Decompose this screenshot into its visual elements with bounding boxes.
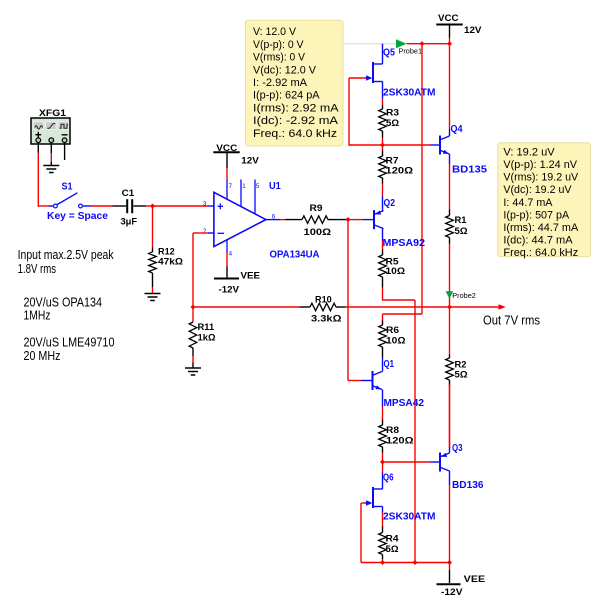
svg-text:V(dc): 12.0 V: V(dc): 12.0 V — [253, 64, 317, 76]
svg-text:MPSA92: MPSA92 — [383, 237, 426, 249]
svg-text:Probe2: Probe2 — [452, 291, 476, 300]
svg-text:R8: R8 — [386, 425, 400, 436]
svg-text:XFG1: XFG1 — [39, 108, 67, 119]
svg-text:I(p-p): 624 pA: I(p-p): 624 pA — [253, 90, 320, 102]
svg-text:120Ω: 120Ω — [386, 165, 414, 176]
svg-text:V(p-p): 1.24 nV: V(p-p): 1.24 nV — [503, 159, 577, 171]
svg-text:20 MHz: 20 MHz — [24, 349, 61, 363]
svg-text:Input max.2.5V peak: Input max.2.5V peak — [18, 248, 115, 262]
svg-text:R11: R11 — [198, 322, 215, 333]
svg-text:1kΩ: 1kΩ — [198, 333, 216, 344]
svg-text:R4: R4 — [386, 533, 400, 544]
svg-text:U1: U1 — [269, 180, 281, 192]
svg-text:12V: 12V — [241, 156, 259, 167]
svg-text:Q6: Q6 — [383, 472, 394, 484]
svg-text:Q1: Q1 — [384, 358, 395, 370]
svg-text:I(dc): -2.92 mA: I(dc): -2.92 mA — [253, 115, 339, 127]
svg-text:V: 19.2 uV: V: 19.2 uV — [503, 147, 555, 159]
svg-text:20V/uS LME49710: 20V/uS LME49710 — [24, 335, 115, 349]
svg-text:2SK30ATM: 2SK30ATM — [383, 87, 436, 99]
svg-text:Probe1: Probe1 — [399, 47, 423, 56]
svg-text:BD135: BD135 — [452, 164, 487, 176]
svg-text:I: 44.7 mA: I: 44.7 mA — [503, 197, 553, 209]
svg-text:S1: S1 — [62, 182, 73, 193]
svg-text:7: 7 — [229, 183, 233, 190]
svg-text:2: 2 — [203, 228, 207, 235]
svg-text:4: 4 — [229, 250, 233, 257]
svg-text:-12V: -12V — [219, 284, 240, 295]
svg-text:1.8V rms: 1.8V rms — [18, 262, 57, 276]
svg-text:10Ω: 10Ω — [386, 336, 406, 347]
svg-text:1: 1 — [242, 183, 246, 190]
svg-text:Q5: Q5 — [383, 47, 395, 59]
svg-text:100Ω: 100Ω — [304, 227, 332, 238]
svg-text:V(p-p): 0 V: V(p-p): 0 V — [253, 39, 304, 51]
svg-text:V(dc): 19.2 uV: V(dc): 19.2 uV — [503, 184, 572, 196]
svg-text:5Ω: 5Ω — [455, 370, 468, 381]
svg-text:I: -2.92 mA: I: -2.92 mA — [253, 77, 308, 89]
svg-text:6: 6 — [272, 214, 276, 221]
svg-text:10Ω: 10Ω — [386, 266, 406, 277]
svg-text:3: 3 — [203, 201, 207, 208]
svg-text:I(rms): 2.92 mA: I(rms): 2.92 mA — [253, 102, 339, 114]
svg-text:3.3kΩ: 3.3kΩ — [311, 314, 342, 325]
svg-text:1MHz: 1MHz — [24, 308, 51, 322]
svg-text:MPSA42: MPSA42 — [384, 397, 425, 409]
svg-text:VEE: VEE — [464, 574, 486, 585]
svg-text:Q3: Q3 — [452, 442, 463, 454]
svg-text:R3: R3 — [386, 107, 399, 118]
svg-text:I(dc): 44.7 mA: I(dc): 44.7 mA — [503, 234, 573, 246]
svg-text:-12V: -12V — [441, 587, 463, 598]
svg-text:C1: C1 — [122, 188, 135, 199]
svg-text:Out 7V rms: Out 7V rms — [483, 314, 540, 328]
svg-text:I(rms): 44.7 mA: I(rms): 44.7 mA — [503, 222, 578, 234]
svg-text:47kΩ: 47kΩ — [158, 257, 183, 268]
svg-text:BD136: BD136 — [452, 479, 484, 491]
svg-text:VCC: VCC — [438, 13, 459, 24]
svg-text:VEE: VEE — [241, 270, 261, 281]
svg-text:VCC: VCC — [216, 143, 237, 154]
svg-text:Freq.: 64.0 kHz: Freq.: 64.0 kHz — [503, 247, 578, 259]
svg-text:R1: R1 — [455, 215, 468, 226]
svg-text:R10: R10 — [315, 294, 332, 305]
svg-text:3μF: 3μF — [121, 216, 138, 227]
svg-text:V(rms): 19.2 uV: V(rms): 19.2 uV — [503, 172, 578, 184]
svg-text:I(p-p): 507 pA: I(p-p): 507 pA — [503, 209, 569, 221]
svg-text:Key = Space: Key = Space — [47, 211, 108, 222]
svg-text:R9: R9 — [310, 203, 323, 214]
svg-text:2SK30ATM: 2SK30ATM — [383, 511, 436, 523]
svg-text:12V: 12V — [464, 25, 482, 36]
svg-text:5Ω: 5Ω — [386, 544, 399, 555]
svg-text:V: 12.0 V: V: 12.0 V — [253, 26, 297, 38]
svg-text:R6: R6 — [386, 325, 399, 336]
svg-text:OPA134UA: OPA134UA — [270, 249, 320, 261]
svg-text:5: 5 — [256, 183, 260, 190]
svg-text:Q4: Q4 — [451, 123, 463, 135]
svg-text:5Ω: 5Ω — [455, 226, 468, 237]
svg-text:Freq.: 64.0 kHz: Freq.: 64.0 kHz — [253, 128, 337, 140]
svg-text:Q2: Q2 — [384, 197, 396, 209]
svg-text:5Ω: 5Ω — [386, 118, 399, 129]
svg-text:V(rms): 0 V: V(rms): 0 V — [253, 52, 306, 64]
svg-text:120Ω: 120Ω — [386, 436, 414, 447]
